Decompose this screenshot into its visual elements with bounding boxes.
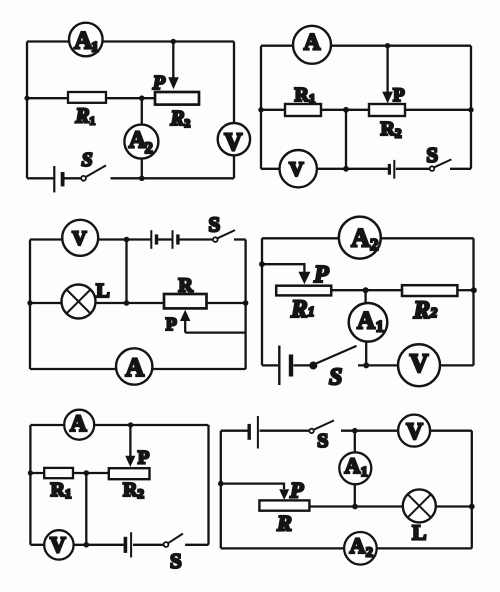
wire slider feed c4: [262, 264, 304, 272]
wire bottom left c2: [261, 168, 388, 170]
battery long plate c2: [393, 160, 395, 179]
wire A1 lower c4: [365, 341, 367, 365]
wire bottom right c5: [185, 544, 208, 546]
resistor R1 c5: [44, 468, 73, 478]
wire right side c2: [470, 46, 472, 169]
wire bottom right c4: [358, 364, 474, 366]
node right middle c2: [468, 107, 473, 112]
wire between cells c3: [158, 238, 172, 240]
svg-text:P: P: [289, 477, 304, 502]
battery short plate c4: [289, 355, 293, 377]
wire center branch c2: [345, 110, 347, 169]
ammeter A c5: [64, 410, 94, 440]
wire slider arrow stem c2: [386, 46, 388, 92]
wire middle row c6: [309, 505, 471, 507]
wire bottom c3: [30, 368, 246, 370]
wire bottom right c2: [450, 168, 471, 170]
node left middle c2: [258, 107, 263, 112]
node center middle c3: [124, 300, 130, 306]
node right middle c6: [469, 504, 475, 510]
wire A1 branch c6: [354, 431, 356, 507]
node center middle c2: [343, 107, 349, 113]
wire center branch c3: [125, 240, 127, 304]
wire battery-to-switch c1: [64, 177, 82, 179]
wire left side c6: [220, 431, 222, 549]
svg-text:2: 2: [366, 546, 373, 561]
ammeter A1 c6: [339, 452, 371, 484]
wire cell-to-switch c3: [179, 238, 213, 240]
resistor R1 c1: [68, 92, 106, 103]
switch S c6: [309, 429, 313, 433]
wire top left c6: [221, 430, 248, 432]
wire top side c1: [27, 40, 234, 42]
svg-text:A: A: [345, 453, 361, 478]
wire A2 branch c1: [141, 98, 143, 178]
rheostat R c6: [259, 500, 309, 510]
wire right side c1: [233, 42, 235, 179]
wire R2-to-right c4: [458, 289, 474, 291]
wire bottom c6: [221, 547, 472, 549]
node left middle c5: [28, 470, 33, 475]
wire middle row c5: [30, 472, 110, 474]
svg-text:P: P: [393, 85, 405, 106]
switch S c4: [309, 362, 317, 370]
wire battery-to-switch c6: [260, 430, 310, 432]
wire bottom right c1: [111, 177, 235, 179]
node bottom junction c1: [139, 176, 145, 182]
svg-text:S: S: [209, 213, 221, 237]
wire middle row left c2: [261, 109, 369, 111]
wire middle row c1: [27, 97, 156, 99]
wire bottom left c4: [262, 364, 278, 366]
node bottom junction c5: [84, 542, 90, 548]
battery long plate c5: [130, 532, 132, 557]
wire center branch c5: [85, 473, 87, 545]
svg-text:P: P: [166, 314, 177, 334]
node right middle c3: [243, 300, 249, 306]
ammeter A2 c4: [339, 217, 381, 259]
node middle junction c1: [139, 95, 145, 101]
wire slider stem c3: [184, 320, 186, 333]
svg-text:2: 2: [370, 235, 379, 254]
voltmeter V c5: [44, 530, 73, 559]
node left middle c3: [27, 300, 32, 305]
node center middle c4: [363, 287, 369, 293]
node left junction c4: [259, 261, 265, 267]
battery cell2 short plate c3: [176, 234, 179, 244]
wire top right c3: [234, 238, 246, 240]
node center middle c5: [84, 470, 90, 476]
svg-text:P: P: [313, 262, 329, 288]
slider arrowhead P c6: [279, 489, 289, 500]
switch S c5: [164, 542, 169, 547]
wire slider row c3: [185, 331, 245, 333]
wire right side c6: [471, 431, 473, 549]
wire left side c1: [26, 42, 28, 179]
wire slider arrow stem c1: [172, 42, 174, 79]
wire right side c4: [472, 238, 474, 365]
wire left side c3: [29, 240, 31, 370]
ammeter A2: [124, 125, 158, 159]
lamp L c6: [403, 489, 436, 522]
wire top right c6: [341, 430, 472, 432]
node top junction c2: [385, 43, 390, 48]
node right middle c4: [471, 287, 477, 293]
voltmeter V c4: [398, 344, 440, 386]
wire left side c5: [29, 425, 31, 545]
voltmeter V c6: [398, 415, 430, 447]
battery short plate c6: [247, 424, 250, 440]
battery short plate c2: [388, 164, 391, 175]
ammeter A1: [69, 23, 103, 57]
resistor R1 c2: [285, 104, 321, 116]
wire middle row right c2: [405, 109, 471, 111]
svg-text:A: A: [304, 29, 321, 54]
battery short plate c5: [124, 537, 128, 553]
node middle junction c6: [352, 504, 358, 510]
lamp L c3: [62, 285, 96, 319]
node left junction c6: [218, 481, 224, 487]
wire slider feed c6: [221, 484, 284, 489]
wire battery-to-switch c5: [133, 544, 164, 546]
battery cell1 long plate c3: [150, 230, 152, 249]
svg-text:L: L: [96, 280, 110, 302]
svg-text:R: R: [178, 275, 193, 297]
wire slider arrow stem c5: [129, 425, 131, 456]
svg-text:A: A: [351, 224, 370, 253]
wire battery-to-switch c2: [396, 168, 430, 170]
svg-text:1: 1: [376, 318, 384, 335]
wire bottom left c5: [30, 544, 124, 546]
voltmeter V c2: [280, 150, 317, 187]
svg-text:L: L: [412, 520, 426, 544]
battery long plate c6: [257, 416, 259, 449]
wire top side c4: [262, 237, 474, 239]
voltmeter V c1: [218, 123, 250, 155]
battery cell2 long plate c3: [172, 230, 174, 249]
svg-text:S: S: [170, 549, 182, 573]
slider arrowhead P c2: [382, 92, 393, 104]
node top junction c1: [171, 39, 176, 44]
wire left side c2: [260, 46, 262, 169]
ammeter A2 c6: [344, 532, 377, 565]
svg-text:V: V: [406, 419, 423, 444]
ammeter A c3: [116, 348, 152, 384]
svg-text:S: S: [426, 143, 438, 167]
battery long plate c1: [53, 166, 55, 192]
switch S c3: [213, 237, 218, 242]
svg-text:V: V: [224, 129, 242, 156]
svg-text:A: A: [357, 307, 375, 334]
svg-text:V: V: [72, 228, 87, 250]
rheostat R2 c2: [369, 104, 405, 116]
svg-text:2: 2: [145, 140, 153, 157]
wire battery-to-switch c4: [294, 364, 311, 366]
node top junction c3: [124, 237, 130, 243]
battery cell1 short plate c3: [155, 234, 158, 244]
node bottom junction c4: [363, 362, 369, 368]
rheostat R c3: [164, 294, 207, 308]
wire A1 upper c4: [364, 290, 366, 304]
svg-text:S: S: [329, 365, 342, 391]
svg-text:A: A: [74, 27, 92, 54]
slider arrowhead P c3: [180, 310, 190, 321]
resistor R1 c4: [276, 286, 331, 296]
slider arrowhead P c5: [125, 456, 135, 467]
svg-text:A: A: [125, 353, 144, 382]
wire R-to-right c3: [207, 302, 246, 304]
svg-text:1: 1: [91, 39, 99, 55]
slider arrowhead P c1: [168, 77, 179, 89]
wire right side c3: [244, 240, 246, 370]
svg-text:R: R: [276, 511, 292, 536]
rheostat R2 c1: [155, 92, 199, 105]
wire top side c2: [261, 45, 471, 47]
svg-text:S: S: [317, 430, 328, 452]
wire middle row c3: [30, 302, 164, 304]
node bottom junction c2: [343, 166, 349, 172]
ammeter A1 c4: [349, 303, 388, 342]
wire top left c3: [30, 238, 151, 240]
switch S c1: [81, 176, 86, 181]
slider arrowhead P c4: [298, 272, 310, 285]
ammeter A c2: [293, 26, 331, 64]
node left middle c1: [24, 96, 29, 101]
resistor R2 c4: [402, 285, 457, 296]
svg-text:1: 1: [361, 465, 368, 480]
svg-text:P: P: [138, 448, 150, 469]
battery long plate c4: [278, 346, 280, 386]
svg-text:S: S: [82, 149, 93, 171]
node top junction c5: [128, 422, 133, 427]
wire left side c4: [261, 238, 263, 365]
wire middle row c4: [331, 289, 402, 291]
wire top side c5: [30, 424, 208, 426]
rheostat R2 c5: [109, 468, 150, 479]
svg-text:V: V: [410, 349, 429, 378]
wire right side c5: [207, 425, 209, 545]
node top junction c6: [352, 428, 358, 434]
switch S c2: [430, 166, 435, 171]
voltmeter V c3: [62, 220, 98, 256]
svg-text:V: V: [50, 532, 66, 557]
svg-text:A: A: [350, 533, 366, 558]
wire bottom left c1: [27, 177, 54, 179]
battery short plate c1: [61, 172, 65, 186]
svg-text:V: V: [289, 159, 304, 181]
svg-text:A: A: [70, 411, 87, 436]
